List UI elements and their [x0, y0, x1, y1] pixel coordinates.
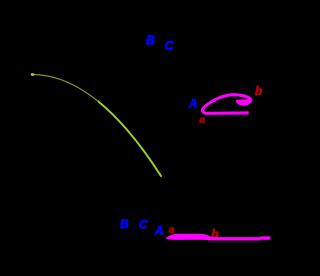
- svg-text:a: a: [169, 224, 175, 236]
- svg-text:a: a: [199, 114, 205, 126]
- svg-text:C: C: [139, 217, 148, 231]
- svg-text:B: B: [146, 34, 155, 48]
- svg-text:b: b: [255, 84, 262, 98]
- trajectory curve (lower bright part): [32, 75, 161, 177]
- svg-text:C: C: [165, 39, 175, 53]
- svg-text:B: B: [120, 217, 129, 231]
- start dot of trajectory: [31, 73, 35, 76]
- svg-text:A: A: [188, 99, 197, 111]
- magenta loop (upper right): [203, 95, 252, 114]
- trajectory curve (upper thin part): [32, 75, 161, 177]
- svg-text:A: A: [154, 223, 164, 237]
- flat magenta shape (bottom): [165, 234, 270, 241]
